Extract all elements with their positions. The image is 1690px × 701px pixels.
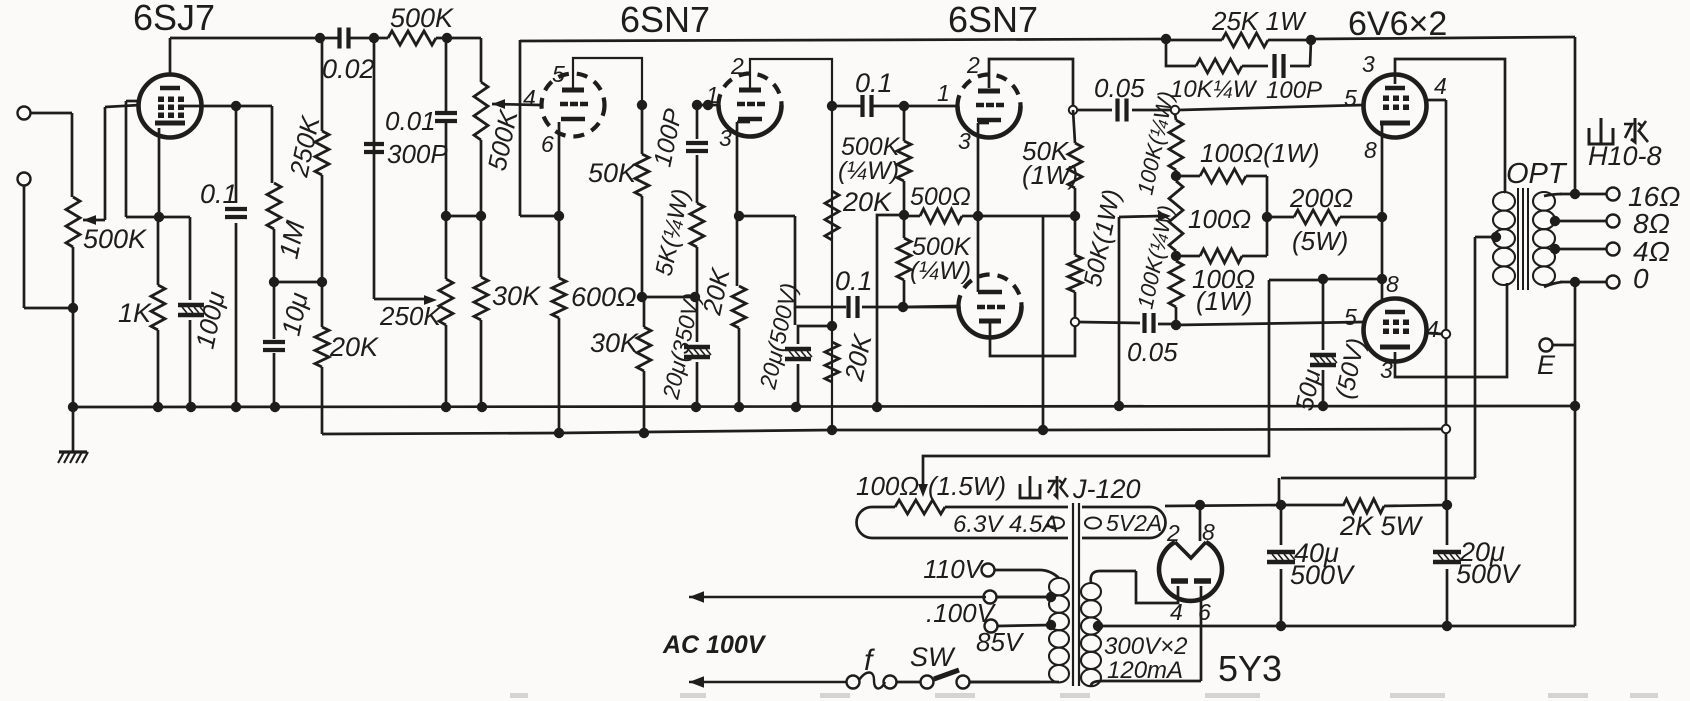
svg-text:3: 3 — [719, 125, 732, 151]
svg-text:10K¼W: 10K¼W — [1170, 76, 1258, 103]
svg-text:(1W): (1W) — [1022, 160, 1078, 190]
svg-text:0.1: 0.1 — [200, 179, 238, 209]
svg-text:8: 8 — [1202, 519, 1215, 545]
svg-text:300V×2: 300V×2 — [1104, 633, 1187, 660]
svg-text:50K: 50K — [588, 158, 637, 188]
svg-text:2K 5W: 2K 5W — [1339, 511, 1424, 541]
svg-text:500K: 500K — [390, 3, 454, 33]
svg-text:300P: 300P — [387, 139, 448, 169]
svg-text:6V6×2: 6V6×2 — [1348, 5, 1447, 43]
svg-text:0.1: 0.1 — [835, 266, 873, 296]
svg-text:6: 6 — [541, 131, 554, 157]
svg-text:0.05: 0.05 — [1127, 337, 1178, 367]
svg-text:(¼W): (¼W) — [910, 257, 971, 285]
svg-text:8: 8 — [1386, 271, 1399, 297]
svg-text:(5W): (5W) — [1292, 226, 1348, 256]
svg-text:2: 2 — [1166, 520, 1180, 546]
svg-text:4: 4 — [1426, 316, 1439, 342]
svg-text:SW: SW — [910, 642, 956, 672]
svg-text:6SN7: 6SN7 — [948, 0, 1038, 40]
svg-text:5: 5 — [1344, 304, 1357, 330]
svg-text:100Ω: 100Ω — [1188, 204, 1251, 234]
svg-text:H10-8: H10-8 — [1588, 141, 1662, 171]
svg-text:25K 1W: 25K 1W — [1211, 6, 1307, 36]
svg-text:500Ω: 500Ω — [910, 183, 971, 211]
svg-text:600Ω: 600Ω — [571, 282, 637, 312]
svg-text:20K: 20K — [842, 187, 892, 217]
svg-text:3: 3 — [1380, 357, 1393, 383]
svg-text:J-120: J-120 — [1072, 474, 1141, 504]
svg-text:8Ω: 8Ω — [1633, 208, 1670, 239]
svg-text:(1W): (1W) — [1196, 286, 1252, 316]
svg-text:100Ω(1W): 100Ω(1W) — [1200, 138, 1319, 168]
svg-text:5: 5 — [1344, 85, 1357, 111]
svg-text:.100V: .100V — [926, 598, 997, 628]
svg-text:0.02: 0.02 — [322, 54, 375, 84]
svg-text:AC 100V: AC 100V — [662, 631, 767, 659]
svg-text:100Ω: 100Ω — [856, 471, 919, 501]
svg-text:500K: 500K — [83, 224, 147, 254]
svg-text:(1.5W): (1.5W) — [928, 471, 1006, 501]
svg-text:3: 3 — [1362, 51, 1375, 77]
svg-text:110V: 110V — [923, 554, 984, 584]
svg-text:100P: 100P — [1266, 77, 1322, 104]
svg-text:6SJ7: 6SJ7 — [133, 0, 215, 38]
svg-text:85V: 85V — [976, 627, 1025, 657]
svg-text:200Ω: 200Ω — [1289, 183, 1353, 213]
svg-text:1: 1 — [706, 82, 719, 108]
svg-text:0.01: 0.01 — [385, 106, 436, 136]
svg-text:0: 0 — [1633, 263, 1649, 294]
svg-text:2: 2 — [966, 52, 980, 78]
svg-text:E: E — [1537, 350, 1556, 380]
svg-text:0.05: 0.05 — [1094, 73, 1145, 103]
svg-text:4: 4 — [1434, 73, 1447, 99]
svg-text:20K: 20K — [329, 332, 379, 362]
svg-text:3: 3 — [958, 128, 971, 154]
svg-text:0.1: 0.1 — [855, 68, 893, 98]
svg-text:500V: 500V — [1290, 560, 1356, 590]
svg-text:5V2A: 5V2A — [1106, 510, 1162, 536]
svg-text:8: 8 — [1364, 137, 1377, 163]
svg-text:(¼W): (¼W) — [838, 157, 899, 185]
svg-text:2: 2 — [730, 53, 744, 79]
svg-text:5Y3: 5Y3 — [1218, 648, 1282, 689]
svg-text:120mA: 120mA — [1107, 657, 1183, 684]
svg-text:1K: 1K — [118, 298, 152, 328]
svg-text:500V: 500V — [1456, 559, 1522, 589]
svg-text:30K: 30K — [590, 328, 639, 358]
svg-text:6SN7: 6SN7 — [620, 0, 710, 40]
svg-text:250K: 250K — [379, 301, 442, 331]
svg-text:5: 5 — [552, 61, 565, 87]
svg-text:4: 4 — [1170, 599, 1183, 625]
svg-text:6: 6 — [1198, 599, 1211, 625]
svg-text:1: 1 — [937, 80, 950, 106]
svg-text:4: 4 — [523, 85, 536, 111]
svg-text:OPT: OPT — [1506, 158, 1568, 190]
svg-text:6.3V 4.5A: 6.3V 4.5A — [953, 511, 1058, 538]
svg-text:30K: 30K — [492, 281, 541, 311]
